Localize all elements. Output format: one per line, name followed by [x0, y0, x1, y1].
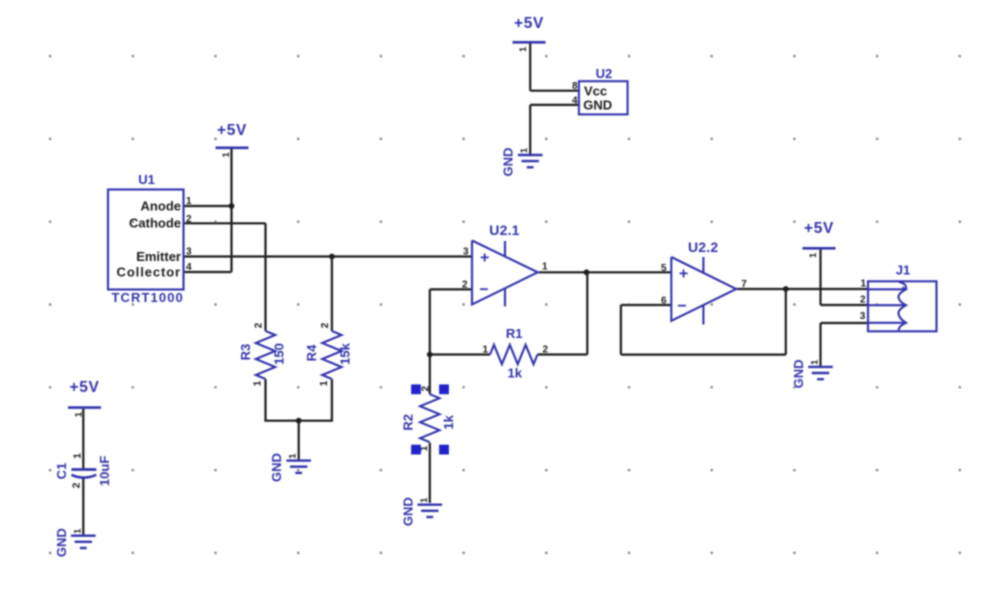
svg-text:15k: 15k: [338, 342, 353, 364]
svg-text:U2: U2: [596, 66, 613, 81]
svg-text:1: 1: [74, 411, 85, 417]
svg-text:1: 1: [253, 380, 264, 386]
svg-text:+5V: +5V: [69, 379, 99, 396]
svg-text:−: −: [677, 298, 686, 315]
svg-text:1: 1: [482, 345, 488, 356]
svg-text:C1: C1: [54, 463, 69, 480]
svg-text:2: 2: [254, 322, 265, 328]
svg-text:4: 4: [186, 262, 192, 273]
svg-text:+5V: +5V: [804, 220, 834, 237]
svg-text:3: 3: [463, 247, 469, 258]
svg-text:2: 2: [421, 385, 432, 391]
svg-text:1: 1: [518, 46, 529, 52]
svg-text:10uF: 10uF: [97, 456, 112, 486]
svg-text:Collector: Collector: [117, 265, 181, 280]
svg-text:Emitter: Emitter: [136, 249, 181, 264]
svg-text:6: 6: [661, 296, 667, 307]
svg-text:2: 2: [462, 279, 468, 290]
svg-text:Vcc: Vcc: [584, 84, 607, 99]
svg-text:Cathode: Cathode: [129, 216, 181, 231]
svg-text:GND: GND: [501, 148, 516, 177]
svg-text:1: 1: [860, 278, 866, 289]
svg-text:1k: 1k: [508, 366, 523, 381]
svg-text:U1: U1: [138, 172, 155, 187]
svg-text:TCRT1000: TCRT1000: [112, 290, 184, 305]
svg-text:R1: R1: [506, 326, 523, 341]
svg-text:−: −: [479, 282, 488, 299]
svg-text:R3: R3: [238, 344, 253, 361]
svg-text:2: 2: [543, 345, 549, 356]
svg-text:1: 1: [808, 252, 819, 258]
svg-text:+5V: +5V: [217, 122, 247, 139]
svg-text:1: 1: [288, 453, 299, 459]
svg-text:1: 1: [810, 359, 821, 365]
svg-text:GND: GND: [54, 528, 69, 557]
svg-text:GND: GND: [583, 98, 612, 113]
svg-text:5: 5: [661, 263, 667, 274]
svg-text:7: 7: [741, 279, 747, 290]
svg-text:+: +: [480, 249, 489, 266]
svg-text:1: 1: [72, 528, 83, 534]
svg-text:2: 2: [71, 482, 83, 488]
svg-text:2: 2: [320, 322, 331, 328]
svg-text:J1: J1: [896, 263, 910, 278]
svg-text:GND: GND: [400, 497, 415, 526]
svg-text:U2.2: U2.2: [688, 239, 718, 255]
svg-text:GND: GND: [269, 453, 284, 482]
svg-text:3: 3: [186, 247, 192, 258]
svg-text:1: 1: [221, 151, 232, 157]
svg-text:1: 1: [419, 497, 430, 503]
svg-text:GND: GND: [791, 359, 806, 388]
svg-text:3: 3: [860, 311, 866, 322]
svg-text:1: 1: [319, 380, 330, 386]
svg-text:1k: 1k: [441, 414, 456, 429]
svg-text:4: 4: [572, 95, 578, 106]
svg-text:8: 8: [572, 81, 578, 92]
svg-text:2: 2: [860, 294, 866, 305]
svg-text:Anode: Anode: [141, 199, 181, 214]
svg-text:U2.1: U2.1: [489, 222, 519, 238]
svg-text:2: 2: [186, 214, 192, 225]
svg-text:150: 150: [271, 343, 286, 365]
svg-text:+: +: [679, 266, 688, 283]
svg-text:1: 1: [542, 262, 548, 273]
svg-text:1: 1: [186, 196, 192, 207]
svg-text:1: 1: [519, 147, 530, 153]
svg-text:R2: R2: [401, 414, 416, 431]
svg-text:R4: R4: [304, 344, 319, 361]
svg-text:1: 1: [72, 453, 84, 459]
svg-text:+5V: +5V: [514, 15, 544, 32]
